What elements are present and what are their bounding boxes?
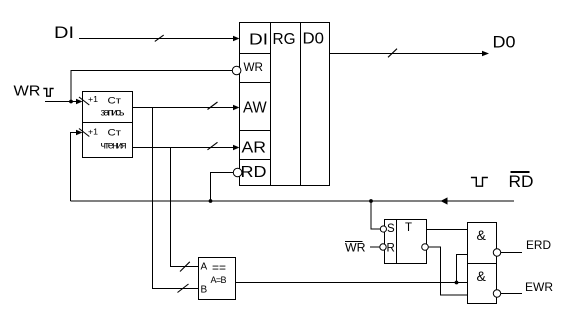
inversion circle S input	[380, 226, 386, 232]
svg-text:+1: +1	[88, 94, 98, 104]
inversion circle WR pin	[232, 66, 241, 75]
wire RD branch to read counter clock	[71, 133, 78, 202]
svg-text:AW: AW	[243, 100, 267, 117]
svg-text:ERD: ERD	[526, 238, 551, 252]
bus slash on DI wire	[155, 35, 164, 41]
wire ERD output	[501, 252, 522, 254]
overline of WR-bar	[345, 241, 363, 243]
overline of RD-bar	[511, 171, 530, 173]
register U1 RG outer box	[240, 23, 330, 186]
svg-text:Ст: Ст	[108, 128, 122, 139]
wire WR branch to register WR pin	[71, 71, 232, 102]
svg-text:DI: DI	[54, 23, 74, 42]
svg-text:A: A	[201, 262, 208, 273]
svg-text:WR: WR	[345, 241, 366, 255]
wire WR-bar to R input	[370, 246, 380, 248]
svg-text:DI: DI	[249, 32, 268, 49]
svg-text:T: T	[405, 222, 412, 234]
arrowhead AW into register	[233, 105, 240, 111]
counter block outer box	[83, 92, 133, 158]
svg-text:A=B: A=B	[211, 275, 227, 285]
wire RD pin to RD line	[211, 173, 234, 202]
bus slash on AR wire	[208, 142, 218, 150]
wire read address to comparator A	[171, 148, 199, 267]
svg-text:чтения: чтения	[101, 140, 127, 152]
svg-text:+1: +1	[88, 127, 98, 137]
svg-text:запись: запись	[101, 106, 126, 118]
wire AW address bus	[133, 107, 235, 109]
wire comparator branch to AND1	[457, 255, 468, 283]
pulse symbol at WR input	[43, 89, 53, 97]
svg-text:D0: D0	[303, 31, 325, 48]
inversion circle AND2 output	[493, 290, 500, 297]
wire RD to trigger S input	[371, 201, 380, 229]
wire AR address bus	[133, 147, 235, 149]
svg-text:R: R	[387, 243, 395, 255]
arrowhead RD clock into read counter	[76, 130, 83, 136]
svg-text:RG: RG	[273, 31, 296, 48]
svg-text:RD: RD	[241, 164, 267, 181]
junction comparator output branch	[455, 281, 459, 285]
wire D0 output bus	[330, 53, 484, 55]
bus slash on A wire	[180, 262, 190, 272]
svg-text:S: S	[387, 223, 395, 235]
gate U4 AND1 box	[468, 223, 497, 264]
svg-text:&: &	[477, 268, 487, 284]
inversion circle trigger output	[422, 244, 429, 251]
inversion circle RD pin	[233, 168, 242, 177]
junction WR node	[69, 100, 73, 104]
dynamic input slash write counter	[79, 97, 89, 105]
arrowhead DI into register	[233, 36, 240, 42]
gate U5 AND2 box	[468, 264, 497, 304]
pulse symbol at RD input	[471, 178, 488, 187]
wire trigger Q to AND1	[427, 229, 468, 231]
svg-text:==: ==	[212, 261, 226, 275]
dynamic input slash read counter	[79, 129, 89, 137]
wire WR input	[45, 101, 78, 103]
wire DI bus to register	[79, 38, 234, 40]
svg-text:EWR: EWR	[525, 280, 553, 294]
wire EWR output	[501, 293, 522, 295]
wire write address to comparator B	[153, 108, 199, 289]
arrowhead D0 output	[482, 51, 489, 57]
comparator U3 box	[199, 258, 236, 300]
arrowhead direction on RD line	[441, 197, 448, 204]
arrowhead AR into register	[233, 145, 240, 151]
wire comparator output	[236, 282, 468, 284]
junction RD to trigger S	[369, 199, 373, 203]
bus slash on D0 wire	[388, 49, 397, 58]
svg-text:D0: D0	[493, 34, 516, 52]
svg-text:WR: WR	[244, 62, 264, 74]
inversion circle R input	[380, 244, 386, 250]
svg-text:AR: AR	[242, 140, 267, 157]
trigger U2 T flip-flop box	[385, 220, 427, 264]
inversion circle AND1 output	[493, 249, 500, 256]
svg-text:&: &	[477, 227, 487, 243]
wire RD main line	[71, 200, 515, 202]
svg-text:B: B	[201, 285, 208, 296]
bus slash on AW wire	[208, 102, 218, 110]
svg-text:WR: WR	[14, 83, 41, 100]
svg-text:Ст: Ст	[108, 96, 122, 107]
bus slash on B wire	[178, 284, 189, 293]
arrowhead WR clock into write counter	[76, 99, 83, 105]
junction RD pin branch	[209, 199, 213, 203]
wire trigger inverted output to AND2	[428, 247, 467, 295]
svg-text:RD: RD	[509, 172, 534, 191]
